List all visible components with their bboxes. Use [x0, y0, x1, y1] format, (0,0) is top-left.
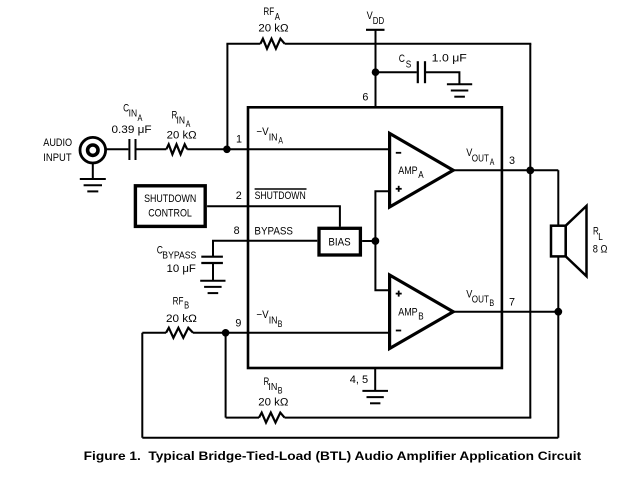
svg-text:1.0 μF: 1.0 μF	[432, 53, 468, 65]
wire VDD node to C_S	[376, 71, 417, 73]
svg-text:BIAS: BIAS	[328, 236, 350, 248]
svg-text:AMP: AMP	[398, 307, 418, 319]
svg-text:Figure 1. Typical Bridge-Tied: Figure 1. Typical Bridge-Tied-Load (BTL)…	[84, 449, 582, 463]
wire RF_A to right vertical	[285, 43, 532, 45]
speaker RL cone	[566, 206, 587, 276]
svg-text:B: B	[278, 385, 283, 396]
svg-text:8 Ω: 8 Ω	[593, 243, 608, 255]
node pin9 junction dot	[222, 329, 230, 337]
wire feedback A vertical	[226, 44, 228, 150]
connector J1 audio input outer	[80, 137, 106, 163]
wire VOUTB	[453, 311, 558, 313]
wire pin4,5 ground stub	[374, 368, 376, 391]
svg-text:C: C	[399, 53, 405, 65]
op-amp AMP_B minus sign	[396, 330, 401, 332]
ground (C_S)	[447, 84, 472, 97]
svg-text:20 kΩ: 20 kΩ	[167, 130, 197, 142]
wire C_S to ground	[426, 72, 459, 84]
node VDD junction dot	[372, 68, 380, 76]
svg-text:8: 8	[234, 225, 240, 237]
wire bias node to amp inputs	[375, 191, 389, 290]
svg-text:6: 6	[362, 91, 368, 103]
wire pin9 down to R_INB	[225, 333, 227, 418]
IC box U1	[248, 107, 502, 368]
capacitor C_INA plates	[129, 139, 135, 160]
ground (audio input)	[80, 179, 106, 191]
node VOUTB junction dot	[554, 308, 562, 316]
svg-text:BYPASS: BYPASS	[254, 225, 293, 237]
svg-text:B: B	[489, 298, 494, 309]
svg-text:20 kΩ: 20 kΩ	[166, 313, 197, 325]
ground (C_BYPASS)	[200, 281, 225, 293]
svg-text:S: S	[406, 59, 412, 70]
op-amp AMP_B	[390, 275, 454, 349]
wire BYPASS pin8	[213, 241, 317, 256]
node VOUTA junction dot	[526, 167, 534, 175]
op-amp AMP_A plus sign	[396, 186, 402, 192]
svg-text:B: B	[278, 319, 283, 330]
supply VDD bar	[366, 29, 385, 31]
svg-text:RF: RF	[173, 295, 184, 307]
svg-text:A: A	[275, 12, 280, 23]
svg-text:RF: RF	[263, 6, 274, 18]
svg-text:IN: IN	[268, 382, 277, 393]
connector J1 audio input inner	[88, 145, 98, 155]
svg-text:9: 9	[235, 317, 241, 329]
op-amp AMP_B plus sign	[396, 291, 402, 297]
capacitor C_S plates	[418, 61, 425, 83]
wire bottom loop	[142, 437, 558, 439]
svg-text:A: A	[278, 136, 283, 147]
wire C_BYPASS to ground	[212, 263, 214, 281]
svg-text:AUDIO: AUDIO	[43, 137, 72, 149]
svg-text:7: 7	[509, 296, 515, 308]
svg-text:4, 5: 4, 5	[350, 374, 368, 386]
svg-text:INPUT: INPUT	[43, 152, 72, 164]
svg-text:BYPASS: BYPASS	[162, 251, 196, 262]
svg-text:1: 1	[236, 134, 242, 146]
op-amp AMP_A minus sign	[396, 152, 401, 154]
svg-text:IN: IN	[129, 108, 138, 119]
svg-text:AMP: AMP	[398, 165, 418, 177]
svg-text:A: A	[186, 119, 191, 130]
svg-text:0.39 μF: 0.39 μF	[112, 124, 153, 136]
ground (pins 4,5)	[362, 391, 388, 403]
wire R_INB left	[226, 417, 259, 419]
wire R_INA to pin1	[187, 148, 389, 150]
svg-text:A: A	[490, 157, 495, 168]
wire RF_B left	[142, 332, 166, 334]
svg-text:B: B	[184, 301, 189, 312]
svg-text:DD: DD	[373, 16, 384, 27]
resistor RF_B	[166, 328, 193, 338]
svg-text:3: 3	[509, 155, 515, 167]
svg-text:A: A	[138, 113, 143, 124]
svg-text:20 kΩ: 20 kΩ	[258, 23, 288, 35]
wire jack stub to ground	[92, 164, 94, 179]
svg-text:IN: IN	[269, 315, 278, 326]
overline for SHUTDOWN pin label	[255, 188, 307, 190]
wire VDD to pin6	[375, 30, 377, 108]
svg-text:L: L	[598, 232, 603, 243]
wire BIAS to node	[362, 240, 375, 242]
resistor RF_A	[260, 39, 284, 49]
resistor R_INA	[166, 144, 187, 154]
wire left vertical RF_B loop	[141, 333, 143, 438]
wire pin9 horizontal	[193, 332, 390, 334]
svg-text:A: A	[418, 170, 424, 181]
svg-text:−V: −V	[256, 309, 269, 321]
svg-text:OUT: OUT	[472, 153, 489, 164]
box shutdown control	[135, 186, 205, 227]
wire RF_A top horizontal	[226, 43, 260, 45]
svg-text:10 μF: 10 μF	[167, 263, 197, 275]
wire shutdown control to BIAS	[207, 206, 340, 227]
svg-text:SHUTDOWN: SHUTDOWN	[255, 190, 306, 202]
capacitor C_BYPASS plates	[201, 257, 223, 263]
wire right vertical RFA/RINB	[529, 44, 531, 418]
op-amp AMP_A	[390, 133, 454, 207]
node pin1 junction dot	[223, 146, 231, 154]
svg-text:20 kΩ: 20 kΩ	[258, 397, 288, 409]
svg-text:IN: IN	[269, 132, 278, 143]
speaker RL vertical top lead	[557, 170, 559, 226]
node BIAS junction dot	[372, 237, 380, 245]
svg-text:CONTROL: CONTROL	[148, 208, 192, 220]
svg-text:B: B	[418, 312, 424, 323]
svg-text:IN: IN	[177, 116, 186, 127]
wire VOUTA	[453, 169, 558, 171]
svg-text:OUT: OUT	[472, 295, 489, 306]
speaker RL vertical bottom lead	[557, 256, 559, 437]
wire R_INB to right vertical	[285, 417, 532, 419]
wire C_INA to R_INA	[137, 148, 167, 150]
resistor R_INB	[259, 413, 285, 423]
svg-text:2: 2	[236, 190, 242, 202]
svg-text:−V: −V	[256, 126, 269, 138]
speaker RL driver box	[551, 226, 566, 257]
box BIAS	[319, 228, 360, 255]
wire jack to C_INA	[106, 148, 128, 150]
svg-text:SHUTDOWN: SHUTDOWN	[144, 193, 196, 205]
